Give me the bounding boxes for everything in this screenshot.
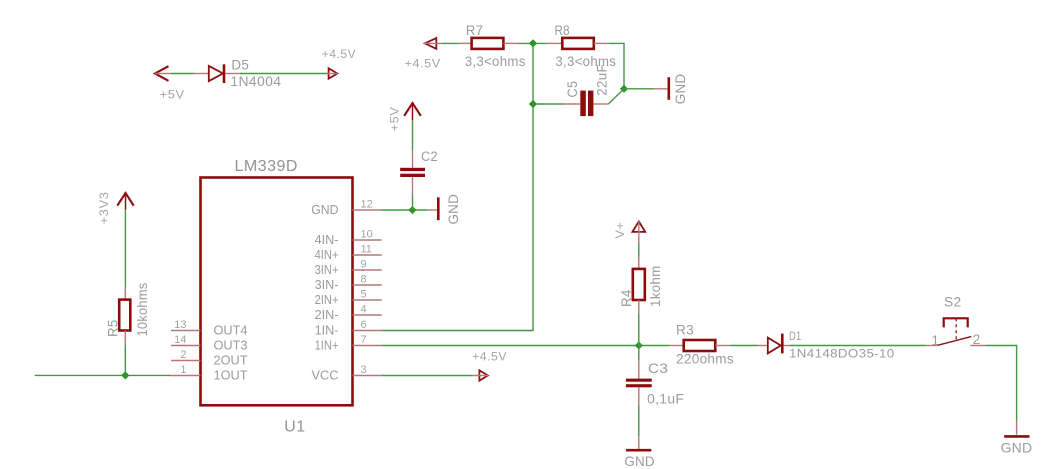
- capacitor C5: [563, 91, 609, 117]
- wire: [124, 345, 126, 376]
- IC U1 LM339D: [201, 178, 353, 406]
- svg-text:+5V: +5V: [160, 90, 185, 102]
- wire: [624, 88, 653, 90]
- wire: [240, 73, 329, 75]
- wire: [518, 42, 547, 44]
- junction: [408, 206, 416, 214]
- svg-text:22uF: 22uF: [594, 64, 609, 96]
- pin 2 2OUT: [171, 349, 248, 368]
- svg-text:1OUT: 1OUT: [214, 368, 248, 382]
- svg-text:2OUT: 2OUT: [214, 353, 248, 367]
- wire: [533, 103, 563, 105]
- svg-text:3,3<ohms: 3,3<ohms: [465, 54, 526, 69]
- capacitor C2: [400, 150, 425, 196]
- wire: [609, 43, 624, 88]
- svg-text:1N4148DO35-10: 1N4148DO35-10: [789, 349, 895, 361]
- pin 13 OUT4: [171, 319, 248, 338]
- svg-text:8: 8: [361, 273, 367, 285]
- junction: [635, 341, 643, 349]
- svg-text:220ohms: 220ohms: [676, 351, 734, 366]
- svg-text:14: 14: [174, 334, 186, 346]
- svg-text:R5: R5: [106, 320, 121, 338]
- pin 7 1IN+: [315, 334, 382, 353]
- svg-text:S2: S2: [944, 295, 962, 310]
- svg-text:5: 5: [361, 288, 367, 300]
- svg-text:2: 2: [973, 332, 981, 347]
- svg-text:13: 13: [174, 319, 186, 331]
- wire: [171, 73, 194, 75]
- svg-text:+3V3: +3V3: [99, 192, 111, 225]
- svg-text:D1: D1: [789, 331, 802, 343]
- resistor R4: [633, 257, 645, 313]
- switch S2: [926, 318, 987, 345]
- capacitor C3: [626, 360, 652, 406]
- pin 4 2IN-: [315, 303, 382, 322]
- svg-text:0,1uF: 0,1uF: [647, 392, 684, 407]
- svg-text:LM339D: LM339D: [235, 158, 298, 175]
- svg-text:R7: R7: [466, 23, 483, 38]
- svg-text:VCC: VCC: [312, 368, 339, 382]
- svg-text:1IN-: 1IN-: [315, 323, 339, 337]
- pin 9 3IN+: [315, 258, 382, 277]
- pin 8 3IN-: [315, 273, 382, 292]
- supply +5V arrow (left of D5): [155, 66, 171, 81]
- ground: [427, 194, 461, 225]
- svg-text:1IN+: 1IN+: [315, 338, 339, 352]
- svg-text:GND: GND: [624, 453, 654, 469]
- diode D1: [757, 334, 790, 354]
- pin 5 2IN+: [315, 288, 382, 307]
- wire: [412, 120, 414, 150]
- wire (vertical to pin6): [382, 43, 533, 330]
- wire: [442, 42, 459, 44]
- wire: [638, 406, 640, 437]
- wire: [986, 346, 1016, 422]
- svg-text:GND: GND: [1001, 440, 1033, 456]
- svg-text:+4.5V: +4.5V: [472, 351, 507, 363]
- svg-text:GND: GND: [672, 74, 688, 105]
- svg-text:GND: GND: [311, 203, 338, 217]
- wire: [412, 195, 414, 210]
- pin 10 4IN-: [315, 228, 382, 247]
- svg-text:GND: GND: [445, 194, 461, 225]
- pin 1 1OUT: [170, 364, 248, 383]
- svg-text:1: 1: [180, 364, 186, 376]
- wire: [35, 374, 170, 376]
- svg-text:C5: C5: [565, 81, 580, 98]
- pin 11 4IN+: [315, 243, 382, 261]
- wire (diagonal): [608, 89, 624, 104]
- svg-text:10: 10: [361, 228, 373, 240]
- svg-text:OUT4: OUT4: [214, 323, 248, 337]
- pin 14 OUT3: [171, 334, 248, 353]
- svg-text:U1: U1: [284, 418, 305, 435]
- svg-text:3IN-: 3IN-: [315, 278, 339, 292]
- pin 6 1IN-: [315, 319, 382, 338]
- wire: [730, 345, 757, 347]
- svg-text:10kohms: 10kohms: [135, 283, 150, 337]
- svg-text:C2: C2: [421, 149, 438, 164]
- junction: [121, 371, 129, 379]
- wire: [638, 313, 640, 345]
- pin 3 VCC: [312, 364, 382, 383]
- wire (pin12 net): [382, 209, 427, 211]
- supply +4.5V arrow (right of D5): [326, 68, 338, 78]
- pin 12 GND: [311, 198, 382, 217]
- junction: [529, 100, 537, 108]
- junction: [529, 39, 537, 47]
- supply +4.5V arrow (left of R7): [424, 38, 442, 49]
- resistor R3: [669, 340, 730, 351]
- ground: [624, 436, 654, 469]
- svg-text:3IN+: 3IN+: [315, 263, 339, 277]
- svg-text:1N4004: 1N4004: [230, 74, 281, 89]
- svg-text:11: 11: [361, 243, 372, 255]
- svg-text:R3: R3: [676, 323, 694, 338]
- resistor R5: [119, 288, 130, 345]
- svg-text:+4.5V: +4.5V: [322, 49, 356, 61]
- svg-text:V+: V+: [615, 222, 627, 239]
- svg-text:2IN+: 2IN+: [315, 293, 339, 307]
- supply V+ arrow: [632, 221, 645, 243]
- svg-text:7: 7: [361, 334, 367, 346]
- svg-text:R8: R8: [555, 23, 570, 38]
- ground: [1001, 421, 1033, 455]
- svg-text:4IN-: 4IN-: [315, 233, 339, 247]
- svg-text:OUT3: OUT3: [214, 338, 248, 352]
- svg-text:4IN+: 4IN+: [315, 248, 339, 262]
- junction: [620, 85, 628, 93]
- svg-text:6: 6: [361, 319, 367, 331]
- svg-text:1: 1: [932, 333, 940, 348]
- svg-text:1kohm: 1kohm: [648, 266, 663, 308]
- svg-text:+5V: +5V: [390, 107, 402, 132]
- resistor R7: [459, 38, 518, 49]
- svg-text:9: 9: [361, 258, 367, 270]
- svg-text:3: 3: [361, 364, 367, 376]
- svg-text:12: 12: [361, 198, 373, 210]
- svg-text:4: 4: [361, 303, 367, 315]
- svg-text:2: 2: [180, 349, 186, 361]
- wire (pin3 net): [382, 375, 473, 377]
- wire: [639, 345, 669, 347]
- wire (pin7 net): [382, 345, 639, 347]
- svg-text:2IN-: 2IN-: [315, 308, 339, 322]
- diode D5: [194, 64, 240, 83]
- svg-text:R4: R4: [619, 289, 634, 307]
- wire: [638, 346, 640, 361]
- svg-text:D5: D5: [231, 58, 249, 73]
- ground: [653, 74, 688, 105]
- svg-text:C3: C3: [648, 361, 669, 376]
- supply +3V3 arrow: [117, 193, 133, 210]
- wire: [124, 210, 126, 288]
- wire: [790, 345, 926, 347]
- wire: [638, 243, 640, 257]
- supply +5V arrow (above C2): [404, 103, 421, 120]
- resistor R8: [547, 38, 609, 49]
- svg-text:+4.5V: +4.5V: [405, 58, 441, 70]
- supply +4.5V arrow (VCC): [473, 370, 489, 380]
